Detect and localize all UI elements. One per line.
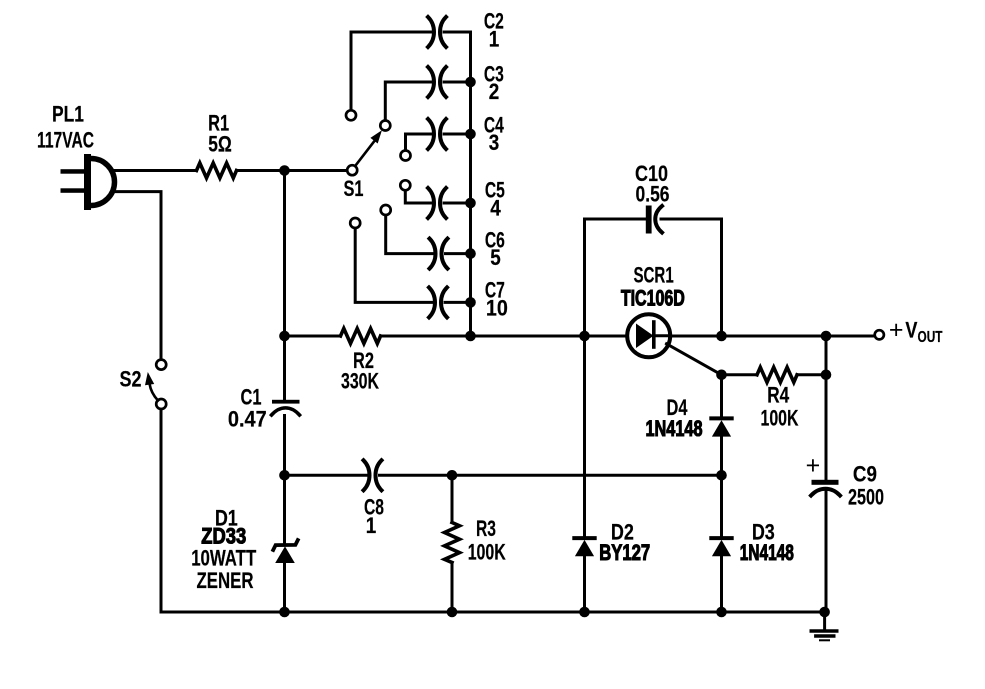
- resistor R4: [757, 367, 799, 431]
- svg-text:330K: 330K: [341, 370, 379, 394]
- svg-text:S2: S2: [120, 368, 142, 392]
- capacitor C4: [401, 114, 505, 160]
- svg-text:ZENER: ZENER: [196, 569, 253, 594]
- node SCR cathode / C10 right: [716, 331, 727, 342]
- node bottom R3: [447, 607, 458, 618]
- switch S2: [120, 360, 167, 409]
- wire main rail to SCR: [381, 335, 628, 338]
- diode D3: [711, 475, 793, 612]
- svg-text:10WATT: 10WATT: [191, 546, 256, 571]
- svg-text:5: 5: [490, 246, 501, 271]
- wire S2 to bottom rail: [160, 410, 163, 613]
- node C9 branch top: [821, 331, 832, 342]
- node bottom D1: [279, 607, 290, 618]
- wire gate junction to R4: [722, 373, 758, 376]
- node bus/main rail: [465, 331, 476, 342]
- svg-text:0.47: 0.47: [228, 407, 267, 431]
- node bottom D2: [579, 607, 590, 618]
- svg-text:117VAC: 117VAC: [37, 129, 94, 153]
- node gate junction: [716, 370, 727, 381]
- node middle rail left: [279, 470, 290, 481]
- resistor R2: [341, 329, 381, 395]
- svg-text:2500: 2500: [848, 486, 884, 510]
- wire SCR gate: [667, 344, 722, 375]
- wire C1 leads: [283, 336, 286, 400]
- svg-text:R3: R3: [476, 518, 496, 542]
- svg-text:V: V: [905, 319, 918, 343]
- svg-text:100K: 100K: [468, 541, 506, 565]
- node top wire junction: [279, 165, 290, 176]
- svg-text:2: 2: [489, 80, 500, 105]
- node bottom C9 / ground: [819, 607, 830, 618]
- diode D4: [645, 375, 731, 476]
- svg-text:0.56: 0.56: [636, 183, 670, 207]
- capacitor C10: [585, 162, 722, 336]
- svg-text:OUT: OUT: [918, 327, 943, 345]
- ground: [811, 612, 836, 640]
- node R4 right: [821, 370, 832, 381]
- wire vertical to main rail: [283, 171, 286, 337]
- switch S1: [343, 130, 381, 201]
- diode D2: [574, 336, 650, 612]
- wire capacitor bus: [469, 32, 472, 336]
- svg-text:10: 10: [486, 297, 508, 321]
- terminal +Vout: [875, 316, 943, 345]
- node D4/D3 junction: [716, 470, 727, 481]
- svg-text:100K: 100K: [760, 407, 798, 431]
- svg-text:TIC106D: TIC106D: [621, 287, 685, 311]
- node R3 top: [447, 470, 458, 481]
- capacitor C2: [346, 10, 504, 120]
- capacitor C8: [364, 460, 385, 538]
- svg-text:1: 1: [366, 514, 377, 539]
- wire main rail right: [670, 335, 874, 338]
- wire main rail left: [285, 335, 341, 338]
- svg-text:1N4148: 1N4148: [740, 542, 794, 566]
- capacitor C9: [806, 336, 884, 612]
- wire R4 to C9 branch: [797, 373, 826, 376]
- wire plug lower prong to S2: [115, 192, 161, 359]
- svg-text:SCR1: SCR1: [633, 263, 673, 287]
- capacitor C1: [228, 385, 300, 431]
- svg-text:+: +: [806, 451, 821, 479]
- resistor R1: [197, 111, 237, 178]
- capacitor C7: [350, 218, 508, 321]
- svg-text:S1: S1: [343, 177, 363, 202]
- svg-text:5Ω: 5Ω: [208, 133, 232, 157]
- capacitor C5: [400, 179, 505, 221]
- svg-text:C1: C1: [241, 385, 262, 410]
- svg-text:PL1: PL1: [52, 103, 84, 127]
- svg-text:3: 3: [489, 131, 500, 156]
- resistor R3: [445, 475, 506, 612]
- svg-text:4: 4: [490, 196, 501, 221]
- node C10 left leg: [579, 331, 590, 342]
- wire middle rail: [285, 474, 367, 477]
- zener diode D1: [191, 475, 298, 612]
- svg-text:+: +: [889, 316, 904, 344]
- svg-text:R4: R4: [767, 384, 789, 409]
- wire plug to R1: [114, 169, 197, 172]
- svg-text:C9: C9: [853, 462, 877, 487]
- svg-text:1N4148: 1N4148: [645, 417, 702, 442]
- svg-text:1: 1: [489, 27, 500, 52]
- node bottom D3: [716, 607, 727, 618]
- capacitor C3: [380, 63, 503, 130]
- wire bottom rail: [161, 611, 825, 614]
- plug PL1: [37, 103, 114, 210]
- thyristor SCR1: [621, 263, 685, 358]
- capacitor C6: [381, 205, 505, 270]
- node main rail left: [279, 331, 290, 342]
- wire R1 to S1: [237, 169, 347, 172]
- svg-text:BY127: BY127: [599, 541, 650, 566]
